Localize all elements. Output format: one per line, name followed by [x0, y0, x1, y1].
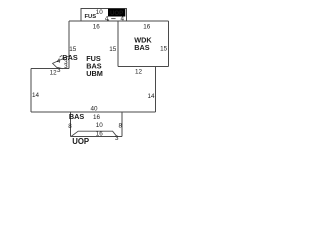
svg-text:15: 15: [160, 45, 168, 52]
porch right wall: [121, 112, 123, 137]
svg-text:16: 16: [93, 114, 101, 121]
svg-text:4: 4: [105, 16, 109, 23]
upper-left wall: [31, 68, 69, 70]
WDK bottom wall: [118, 66, 168, 68]
porch bottom wall: [71, 136, 122, 138]
svg-text:15: 15: [109, 46, 117, 53]
svg-text:8: 8: [68, 123, 72, 130]
divider wall between main block and WDK: [117, 21, 119, 67]
tick mark top box: [111, 18, 115, 20]
main top wall: [69, 20, 169, 22]
svg-text:UBM: UBM: [86, 69, 103, 78]
svg-text:3: 3: [115, 135, 119, 142]
tick mark top line: [107, 20, 110, 21]
svg-text:14: 14: [147, 93, 155, 100]
main left wall: [68, 21, 70, 69]
svg-text:FUS: FUS: [85, 14, 97, 20]
svg-text:16: 16: [93, 24, 101, 31]
svg-text:UOP: UOP: [72, 137, 89, 146]
bay window polygon: [53, 56, 69, 69]
svg-text:4: 4: [121, 15, 125, 22]
top dormer box outline: [81, 9, 126, 22]
WDK right wall: [168, 21, 170, 67]
long bottom wall: [31, 111, 155, 113]
tick mark bay: [60, 55, 62, 57]
svg-text:16: 16: [96, 131, 104, 138]
step vertical wall: [154, 67, 156, 113]
svg-text:BAS: BAS: [134, 43, 150, 52]
porch left wall: [70, 112, 72, 137]
svg-text:8: 8: [119, 123, 123, 130]
UOP highlight box: [108, 9, 125, 17]
svg-text:12: 12: [135, 69, 143, 76]
porch roof trapezoid: [71, 131, 117, 137]
svg-text:40: 40: [90, 105, 98, 112]
left wall: [30, 69, 32, 112]
svg-text:4: 4: [57, 58, 61, 65]
svg-text:10: 10: [96, 9, 104, 16]
svg-text:16: 16: [143, 24, 151, 31]
svg-text:14: 14: [32, 92, 40, 99]
svg-text:12: 12: [50, 69, 58, 76]
svg-text:BAS: BAS: [69, 112, 85, 121]
svg-text:3: 3: [57, 67, 61, 74]
svg-text:3: 3: [64, 63, 68, 70]
svg-text:10: 10: [96, 122, 104, 129]
